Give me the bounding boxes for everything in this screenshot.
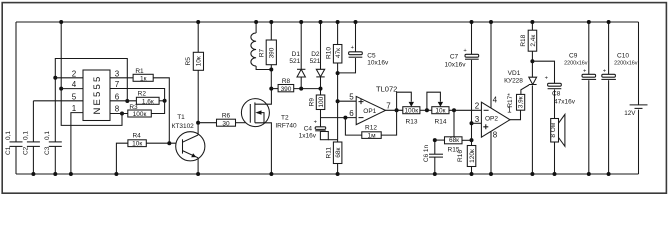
wire pin7 output: [385, 109, 403, 111]
svg-text:R6: R6: [222, 113, 231, 120]
diode D2 521: [310, 20, 325, 95]
svg-text:R14: R14: [435, 118, 447, 125]
svg-text:390: 390: [281, 86, 292, 93]
resistor R4: [114, 133, 182, 176]
svg-text:521: 521: [289, 58, 300, 65]
trimmer R14: [427, 92, 482, 125]
capacitor C8: [532, 61, 575, 118]
svg-text:R4: R4: [132, 133, 141, 140]
svg-text:КТ3102: КТ3102: [172, 123, 195, 130]
wire pin4 stub: [61, 88, 83, 90]
svg-text:R16: R16: [457, 150, 464, 162]
capacitor C4: [299, 120, 338, 140]
svg-text:R2: R2: [138, 91, 147, 98]
svg-text:10к: 10к: [196, 56, 203, 66]
svg-text:2: 2: [475, 102, 480, 111]
svg-text:OP2: OP2: [485, 115, 498, 122]
wire pin1 to ground: [71, 113, 83, 174]
svg-text:TL072: TL072: [376, 85, 397, 94]
svg-text:1: 1: [72, 104, 77, 113]
svg-text:1x16v: 1x16v: [299, 133, 317, 140]
diode D1 521: [289, 20, 305, 91]
svg-text:521: 521: [310, 58, 321, 65]
svg-text:1м: 1м: [367, 132, 376, 139]
svg-text:R12: R12: [365, 124, 377, 131]
resistor R11: [326, 101, 342, 176]
svg-text:5: 5: [349, 93, 354, 102]
svg-text:100: 100: [318, 96, 325, 107]
capacitor C10: [601, 20, 637, 176]
resistor R1: [110, 68, 169, 143]
svg-text:5: 5: [72, 92, 77, 101]
op-amp OP2 (TL072): [472, 20, 521, 176]
svg-text:2200x16v: 2200x16v: [564, 60, 588, 66]
IC U1 NE555: [72, 69, 120, 120]
svg-text:C8: C8: [552, 91, 561, 98]
wire pin8 V-: [490, 131, 492, 174]
svg-text:R5: R5: [185, 57, 192, 66]
svg-text:390: 390: [269, 47, 276, 58]
svg-text:R13: R13: [406, 118, 418, 125]
svg-text:2: 2: [72, 69, 77, 78]
svg-text:0,1: 0,1: [5, 131, 12, 140]
svg-text:OP1: OP1: [363, 108, 376, 115]
capacitor C6: [423, 140, 443, 176]
svg-text:100к: 100к: [404, 107, 418, 114]
svg-text:T1: T1: [177, 114, 185, 121]
resistor R3: [110, 101, 165, 118]
capacitor C3: [44, 78, 62, 176]
svg-text:8: 8: [493, 130, 498, 139]
wire top +12V rail: [16, 21, 639, 23]
wire pin5 input: [338, 100, 357, 102]
svg-text:6: 6: [115, 92, 120, 101]
wire pin1 output: [510, 110, 521, 120]
svg-text:8: 8: [115, 105, 120, 114]
svg-text:3: 3: [115, 69, 120, 78]
svg-text:КУ228: КУ228: [504, 77, 523, 84]
svg-text:R9: R9: [309, 98, 316, 107]
resistor R10: [326, 20, 342, 103]
resistor R8: [271, 78, 320, 93]
svg-text:C5: C5: [367, 52, 376, 59]
svg-text:2,4к: 2,4к: [530, 35, 537, 47]
svg-text:10к: 10к: [435, 107, 445, 114]
op-amp OP1 (TL072): [321, 85, 403, 125]
svg-text:7: 7: [115, 80, 120, 89]
wire pin2-pin6 loop with C3: [53, 59, 129, 104]
wire pin6 input: [321, 117, 357, 119]
wire pin7 to R2 right node: [110, 89, 165, 101]
svg-text:100к: 100к: [133, 111, 147, 118]
wire pin5 to C2: [33, 100, 83, 102]
svg-text:68к: 68к: [335, 148, 342, 158]
resistor R15: [433, 110, 474, 153]
svg-text:VD1: VD1: [508, 70, 521, 77]
svg-text:6: 6: [349, 109, 354, 118]
capacitor C2: [22, 101, 40, 176]
resistor R6: [198, 113, 250, 128]
svg-text:3,9к: 3,9к: [518, 96, 525, 108]
svg-text:4: 4: [72, 80, 77, 89]
wire VCC to pin4 and pin8 of NE555: [59, 20, 124, 125]
thyristor VD1 KU228: [504, 70, 537, 176]
svg-text:2200x16v: 2200x16v: [614, 60, 638, 66]
svg-text:R3: R3: [129, 104, 138, 111]
svg-text:R18: R18: [520, 34, 527, 46]
wire pin2 stub: [55, 77, 83, 79]
svg-text:C10: C10: [617, 52, 629, 59]
resistor R9: [309, 95, 325, 127]
wire pin3 input: [472, 122, 482, 124]
svg-text:1,6к: 1,6к: [142, 99, 154, 106]
svg-text:IRF740: IRF740: [275, 123, 297, 130]
svg-text:7: 7: [386, 101, 391, 110]
capacitor C7: [445, 20, 479, 146]
svg-text:C6 1n: C6 1n: [423, 144, 430, 162]
svg-text:C1: C1: [5, 146, 12, 155]
svg-text:C2: C2: [22, 146, 29, 155]
svg-text:1к: 1к: [140, 76, 147, 83]
svg-text:R8: R8: [282, 78, 291, 85]
capacitor C1: [5, 22, 23, 174]
svg-text:C9: C9: [569, 52, 578, 59]
resistor R7: [259, 20, 277, 91]
speaker 8 Ohm: [550, 114, 565, 176]
svg-text:R17*: R17*: [507, 93, 514, 108]
svg-text:12V: 12V: [624, 110, 636, 117]
svg-text:47к: 47к: [335, 48, 342, 58]
wire bottom ground rail: [16, 173, 639, 175]
svg-text:47x16v: 47x16v: [554, 98, 576, 105]
svg-text:8 Ом: 8 Ом: [550, 122, 557, 137]
svg-text:R11: R11: [326, 147, 333, 159]
resistor R16: [457, 146, 476, 177]
resistor R18: [520, 20, 537, 77]
svg-text:0,1: 0,1: [44, 131, 51, 140]
svg-text:10к: 10к: [132, 141, 142, 148]
trimmer R13: [397, 92, 432, 125]
capacitor C5: [338, 20, 389, 73]
resistor R5: [185, 20, 203, 125]
svg-text:0,1: 0,1: [22, 131, 29, 140]
svg-text:120к: 120к: [469, 149, 476, 163]
battery 12V: [624, 22, 647, 174]
svg-text:R7: R7: [259, 48, 266, 57]
border frame: [2, 3, 666, 194]
svg-text:NE555: NE555: [92, 74, 103, 114]
svg-text:C4: C4: [304, 126, 313, 133]
svg-text:10x16v: 10x16v: [445, 62, 467, 69]
inductor L choke: [251, 20, 271, 70]
svg-text:R1: R1: [135, 68, 144, 75]
capacitor C9: [564, 20, 596, 176]
transistor T2 IRF740: [241, 89, 297, 176]
svg-text:C3: C3: [44, 146, 51, 155]
svg-text:R10: R10: [326, 47, 333, 59]
svg-text:3: 3: [475, 115, 480, 124]
resistor R12: [345, 110, 396, 139]
svg-text:C7: C7: [450, 54, 459, 61]
svg-text:T2: T2: [281, 115, 289, 122]
svg-text:4: 4: [493, 96, 498, 105]
svg-text:+: +: [603, 69, 607, 75]
resistor R17: [507, 85, 529, 110]
wire pin4 V+: [490, 22, 492, 108]
svg-text:10x16v: 10x16v: [367, 60, 389, 67]
transistor T1 KT3102: [172, 114, 205, 176]
svg-text:68к: 68к: [449, 137, 459, 144]
svg-text:30: 30: [222, 120, 230, 127]
resistor R2: [110, 91, 167, 106]
